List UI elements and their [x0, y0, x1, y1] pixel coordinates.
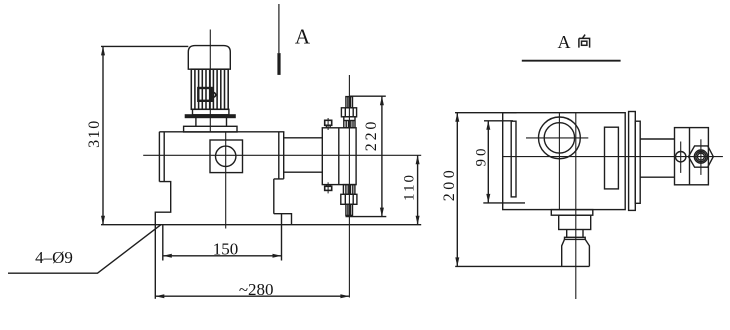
svg-text:220: 220: [363, 119, 380, 151]
pump head: [322, 128, 356, 185]
pump body left profile: [155, 132, 170, 225]
dimension 310: [101, 46, 188, 224]
dimension 150: [163, 214, 282, 261]
motor junction box: [198, 88, 211, 101]
motor pedestal: [184, 126, 237, 132]
discharge valve top pipe: [346, 97, 353, 108]
pump body right profile: [274, 132, 292, 225]
dimension 110: [416, 155, 420, 224]
A-view circle vertical centerline: [558, 113, 560, 210]
A-view right plate 1: [629, 112, 636, 211]
dimension 220: [350, 96, 386, 216]
A-view right plate 2: [635, 121, 640, 203]
svg-text:4–Ø9: 4–Ø9: [35, 248, 73, 267]
A-view hex nut: [689, 146, 714, 167]
motor M1 fin block: [191, 69, 228, 109]
A-view small circle: [676, 152, 686, 162]
A-view neck: [566, 230, 568, 238]
sight glass vertical centerline: [225, 132, 227, 229]
svg-text:A: A: [558, 32, 571, 52]
motor centerline: [209, 30, 211, 133]
dimension 90: [483, 121, 525, 203]
A-view circle horizontal centerline: [526, 137, 588, 139]
head bottom-left bolt: [325, 182, 332, 193]
head top-left bolt: [325, 118, 332, 130]
ground line: [101, 224, 421, 226]
discharge valve nut: [341, 108, 356, 117]
A-view bottom plate: [551, 210, 593, 216]
A-view neck lip: [565, 237, 586, 239]
motor base band: [193, 109, 229, 115]
suction valve extension line: [346, 216, 387, 218]
A-view big circle: [539, 117, 581, 159]
glyph xiang of title: [579, 35, 590, 48]
A-view stem block: [559, 215, 591, 229]
A-view title underline: [522, 60, 621, 62]
A-view cup: [562, 239, 590, 266]
svg-text:200: 200: [441, 167, 458, 202]
A-view vertical centerline: [575, 113, 577, 299]
svg-text:310: 310: [86, 119, 103, 148]
svg-text:110: 110: [401, 173, 417, 201]
dimension 200: [455, 113, 517, 267]
A-view body: [503, 113, 626, 210]
leader 4-d9: [8, 225, 161, 274]
A-view left strip: [511, 121, 516, 197]
sight glass square: [210, 140, 243, 173]
cylinder between body and head: [284, 137, 323, 139]
A-view cup bottom and 200 extension line: [455, 265, 589, 267]
suction valve bottom pipe: [346, 204, 353, 215]
discharge valve threaded section: [344, 117, 355, 128]
A-view main horizontal centerline: [503, 156, 723, 158]
A-view slot: [605, 127, 619, 189]
main horizontal centerline: [143, 154, 421, 156]
suction valve threaded section: [343, 185, 355, 195]
svg-text:90: 90: [474, 146, 490, 167]
svg-text:A: A: [295, 25, 311, 49]
motor neck: [195, 118, 197, 127]
sight glass circle: [216, 146, 236, 166]
dimension ~280: [155, 225, 349, 299]
A-view cylinder: [640, 138, 674, 140]
svg-text:150: 150: [213, 240, 239, 259]
motor M1 cap: [188, 46, 230, 70]
svg-text:~280: ~280: [239, 280, 274, 299]
A-view valve block: [675, 128, 709, 185]
valve vertical centerline: [348, 75, 350, 298]
section arrow A: [278, 4, 280, 53]
suction valve nut: [341, 194, 357, 204]
pump body top edge: [159, 131, 284, 133]
motor flange plate: [185, 115, 235, 118]
